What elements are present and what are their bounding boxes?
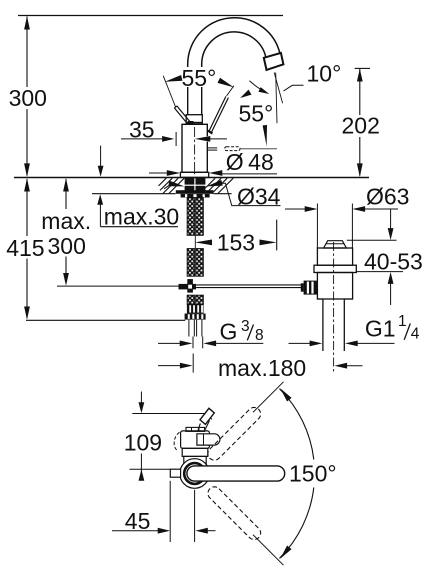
max30 upper line: [100, 146, 102, 168]
body collar: [186, 115, 202, 125]
rod coupling block: [304, 281, 318, 295]
waste body: [317, 273, 352, 300]
angle arrow onto tilted line: [258, 87, 269, 94]
svg-text:109: 109: [124, 430, 162, 456]
dim45 right tail: [206, 530, 215, 532]
max300 arrow down: [63, 273, 69, 286]
4053 arrow up: [388, 272, 394, 284]
deck hatching left: [169, 178, 184, 193]
svg-text:300: 300: [48, 233, 86, 259]
55deg lower arrow down: [263, 125, 267, 146]
base plate center tick: [194, 172, 196, 174]
body inner circle: [184, 463, 205, 484]
svg-text:45: 45: [125, 508, 151, 534]
dimension 63 right tail: [364, 208, 398, 210]
svg-text:max.30: max.30: [104, 203, 179, 229]
body collar seam: [187, 122, 202, 124]
leader for 10deg: [284, 85, 304, 91]
svg-text:300: 300: [9, 85, 47, 111]
55deg upper left arrow: [165, 75, 183, 82]
4053 knob extension: [347, 239, 397, 241]
max180 left extension: [192, 354, 194, 373]
closed lever horizontal line 1: [208, 147, 217, 149]
stream reference line vertical: [276, 73, 277, 124]
deck hatching right: [206, 178, 221, 193]
svg-text:Ø34: Ø34: [237, 183, 281, 209]
waste knob seam: [326, 243, 345, 245]
dim109 lower extension line: [130, 468, 171, 470]
pull rod cross fitting: [179, 284, 197, 290]
body centerline: [194, 127, 196, 172]
open lever blade line 1: [209, 96, 226, 131]
dimension 415 upper line: [26, 179, 28, 236]
waste flange body: [317, 248, 352, 265]
dimension 153 left arrow: [195, 240, 212, 246]
svg-text:153: 153: [217, 230, 255, 256]
svg-text:Ø 48: Ø 48: [226, 149, 274, 175]
gap in body edge for 35 arrow: [206, 136, 209, 141]
dim45 left arrow: [158, 528, 170, 534]
closed lever blade line 1: [174, 108, 187, 124]
dimension 202 arrow down: [357, 163, 363, 177]
max180 left arrow: [180, 363, 193, 369]
top reference line (spout height datum): [18, 15, 283, 17]
svg-text:40-53: 40-53: [364, 248, 423, 274]
swing arc upper: [279, 389, 313, 460]
cartridge box: [181, 431, 210, 448]
G38 left tail: [158, 342, 181, 344]
dim109 lower line: [140, 454, 142, 481]
cartridge cap bumps: [186, 427, 205, 431]
waste flange ring: [314, 265, 356, 272]
swing axis extension lower: [253, 535, 284, 566]
dimension 153 end tick: [276, 220, 278, 251]
max300 lower line: [65, 257, 67, 277]
max180 right arrow: [334, 363, 347, 369]
hose nuts upper: [187, 304, 204, 313]
closed lever horizontal thin line: [240, 148, 277, 150]
dimension 415 lower line: [26, 259, 28, 319]
G38 right tail: [215, 342, 264, 344]
hose segment 1 right: [196, 198, 204, 236]
dim109 arrow down: [139, 402, 145, 413]
dimension 35 right tail: [209, 138, 228, 140]
stream reference line tilted 10deg: [274, 73, 282, 104]
max30 arrow up: [97, 194, 103, 205]
waste centerline: [333, 242, 335, 374]
svg-text:150°: 150°: [289, 460, 337, 486]
backnut tier 2: [181, 194, 210, 198]
waste extension line right: [351, 204, 353, 249]
G114 right arrow: [345, 341, 358, 347]
4053 upper line: [390, 209, 392, 230]
waste pipe right: [343, 299, 345, 351]
body outer circle: [180, 459, 210, 489]
open lever blade end cap: [208, 131, 213, 134]
svg-text:202: 202: [342, 113, 380, 139]
dimension 48 left arrow: [167, 170, 180, 176]
rod extension line: [57, 285, 179, 287]
dim45 left extension: [169, 481, 171, 542]
hose segment 2 right: [196, 249, 204, 277]
closed lever horizontal paddle outline: [225, 147, 240, 151]
swing arc arrow top: [280, 388, 291, 401]
dimension 35 left arrow: [162, 136, 174, 142]
dim109 arrow up: [139, 469, 145, 480]
G38 left arrow: [180, 341, 193, 347]
waste extension line left: [316, 204, 318, 249]
svg-text:G1: G1: [365, 315, 396, 341]
closed lever hinge block: [188, 121, 194, 124]
dimension 35 right arrow: [195, 136, 210, 142]
dimension 34 left tail: [164, 184, 171, 189]
aerator nozzle: [264, 53, 284, 70]
4053 lower line: [390, 283, 392, 306]
dimension 300 line upper segment: [26, 17, 28, 88]
4053 ring extension: [356, 271, 403, 273]
spout inner arc: [202, 32, 266, 67]
max30 lower line: [99, 201, 101, 227]
lever neck piece: [197, 434, 220, 445]
hose end reference line: [26, 319, 185, 321]
dim109 upper line: [140, 392, 142, 405]
angle arrow left piece: [240, 90, 251, 98]
dimension 63 left arrow: [305, 206, 318, 212]
svg-text:8: 8: [255, 327, 264, 344]
dim45 right extension: [194, 490, 196, 542]
svg-text:55°: 55°: [239, 101, 274, 127]
swing arc arrow bottom: [280, 546, 291, 559]
svg-text:10°: 10°: [307, 61, 342, 87]
closed lever axis line: [163, 76, 176, 108]
dimension 202 line lower: [359, 137, 361, 176]
swing axis extension upper: [253, 382, 284, 413]
spout riser tube left edge: [187, 87, 189, 115]
dimension 34 right arrow: [207, 180, 223, 186]
closed lever blade tip cap: [174, 106, 176, 108]
deck bottom line right: [213, 193, 231, 195]
G114 left arrow: [310, 341, 323, 347]
svg-text:max.: max.: [41, 208, 91, 234]
dimension 300 line lower segment: [26, 109, 28, 176]
spout outer arc: [188, 18, 280, 67]
waste knob: [324, 241, 347, 248]
top view spout neck lines: [198, 424, 201, 431]
spout riser tube right edge: [201, 87, 203, 115]
countertop line: [14, 177, 369, 179]
55deg upper right arrow: [218, 78, 235, 88]
dimension 35 extension line: [175, 132, 177, 146]
open lever blade line 2: [211, 98, 228, 133]
open lever axis line: [227, 86, 234, 96]
hose segment 3 right: [196, 295, 204, 304]
max180 right tail: [346, 365, 363, 367]
svg-text:415: 415: [6, 235, 44, 261]
mounting shank blocks: [185, 178, 195, 185]
G114 left tail: [289, 342, 312, 344]
G114 right tail: [356, 342, 394, 344]
neck band 2: [184, 456, 206, 464]
hose segment 3 left: [187, 295, 195, 304]
threaded tail lines: [188, 320, 190, 337]
dimension 34 left arrow: [168, 181, 184, 187]
dim45 right arrow: [195, 528, 207, 534]
dim109 spout extension: [132, 414, 212, 420]
svg-text:4: 4: [411, 326, 420, 343]
dimension 48 right tail: [221, 173, 277, 175]
dimension 202 extension tick: [355, 67, 370, 69]
dimension 153 right arrow: [260, 240, 277, 246]
svg-text:G: G: [220, 319, 238, 345]
svg-text:max.180: max.180: [218, 355, 306, 381]
max30 arrow down: [98, 166, 104, 177]
closed lever blade line 2: [177, 106, 190, 122]
G38 extension lines: [192, 337, 194, 349]
backnut tier 1: [176, 190, 214, 194]
dimension 202 arrow up: [357, 69, 363, 82]
pull rod upper: [194, 235, 196, 248]
closed lever horizontal line 2: [208, 149, 217, 151]
dimension 63 right arrow: [352, 206, 365, 212]
neck band 1: [182, 448, 208, 456]
dashed lever lower: [205, 484, 263, 542]
dim45 line: [112, 530, 159, 532]
max300 upper line: [65, 179, 67, 209]
hose segment 1 left: [187, 198, 195, 236]
dimension 63 left tail: [285, 208, 306, 210]
lever handle: [187, 466, 285, 481]
dimension 48 left tail: [149, 172, 168, 174]
dimension 202 line upper: [359, 69, 361, 115]
left dashed arc: [174, 432, 179, 450]
max30 underline: [100, 226, 178, 228]
dimension 48 right arrow: [209, 170, 222, 176]
4053 arrow down: [388, 228, 394, 240]
dashed lever upper: [205, 405, 263, 463]
left tab: [170, 469, 180, 477]
swing arc lower: [279, 488, 313, 559]
horizontal pop-up rod: [196, 284, 303, 286]
hose nuts lower: [185, 314, 206, 320]
dimension 300 arrow up: [24, 16, 30, 29]
deck bottom line left: [92, 193, 176, 195]
faucet base plate: [180, 172, 208, 177]
svg-text:35: 35: [129, 117, 155, 143]
waste pipe left: [322, 299, 324, 351]
lever neck divider: [203, 434, 205, 445]
max300 arrow up: [63, 178, 69, 191]
waste pipe step: [317, 298, 323, 300]
G38 right arrow: [203, 341, 216, 347]
top view spout tip: [200, 408, 214, 424]
svg-text:3: 3: [241, 318, 250, 335]
angle arc for 10deg right part: [249, 81, 261, 90]
dimension 300 arrow down: [24, 163, 30, 177]
dimension 415 arrow up: [24, 178, 30, 191]
dimension 35 line: [121, 138, 164, 140]
dimension 415 arrow down: [24, 307, 30, 320]
max180 left tail: [158, 365, 181, 367]
faucet body: [182, 124, 207, 172]
svg-text:Ø63: Ø63: [366, 184, 409, 210]
dimension 34 leader: [220, 183, 280, 205]
svg-text:55°: 55°: [182, 65, 217, 91]
svg-text:1: 1: [398, 313, 407, 330]
hose segment 2 left: [187, 249, 195, 277]
